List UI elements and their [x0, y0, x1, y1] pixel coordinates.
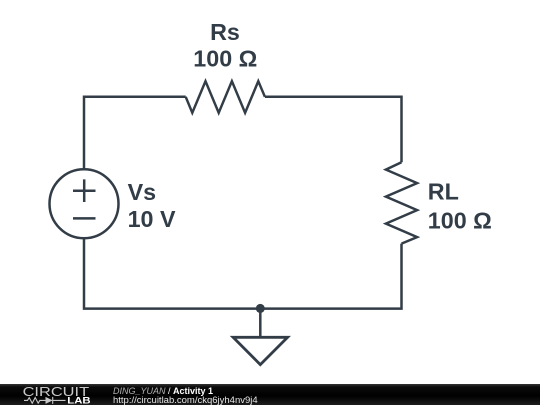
- plus sign: [73, 179, 96, 202]
- wire: right vertical lower + bottom horizontal: [84, 239, 402, 309]
- svg-text:LAB: LAB: [67, 396, 91, 405]
- CircuitLab logo: [0, 384, 100, 405]
- svg-text:Vs: Vs: [128, 179, 157, 205]
- node junction dot: [256, 304, 265, 313]
- footer title: [113, 386, 213, 396]
- footer url: [113, 395, 258, 406]
- ground symbol: [233, 337, 288, 364]
- wire: ground stub: [259, 309, 262, 338]
- svg-text:Rs: Rs: [210, 19, 240, 45]
- svg-text:100 Ω: 100 Ω: [428, 207, 492, 233]
- minus sign: [73, 217, 96, 220]
- voltage source V1 circle: [50, 169, 119, 238]
- svg-text:100 Ω: 100 Ω: [193, 46, 257, 72]
- footer bar: [0, 384, 540, 405]
- resistor Rs: [186, 81, 265, 113]
- svg-text:RL: RL: [428, 179, 459, 205]
- svg-text:10 V: 10 V: [128, 206, 176, 232]
- wire: top-right horizontal + right vertical upper: [265, 97, 402, 162]
- resistor RL: [386, 162, 417, 243]
- wire: left vertical + top-left horizontal: [84, 97, 186, 169]
